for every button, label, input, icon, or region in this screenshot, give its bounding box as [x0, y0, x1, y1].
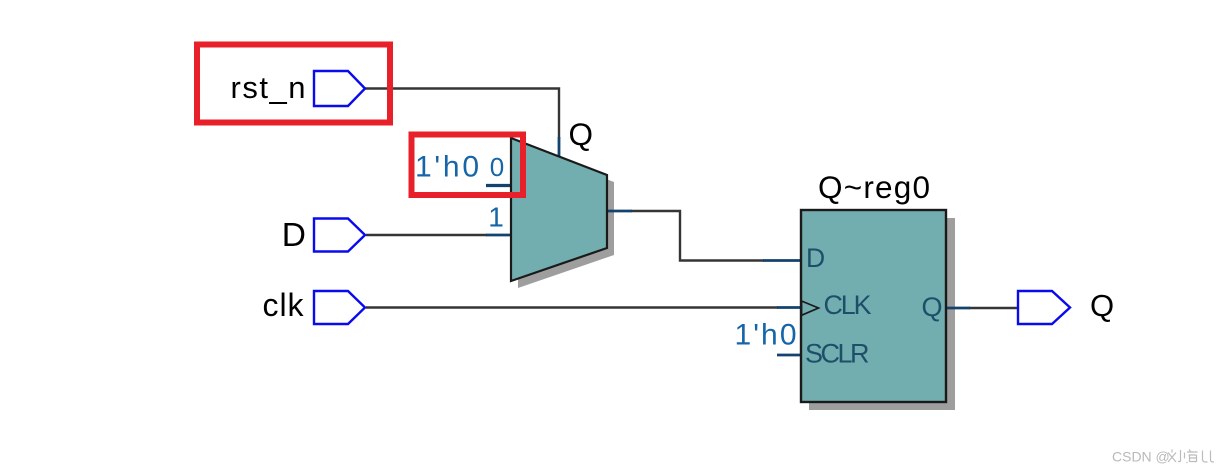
svg-text:CLK: CLK	[824, 290, 872, 320]
svg-text:1'h0: 1'h0	[735, 319, 797, 352]
svg-text:Q: Q	[569, 116, 594, 152]
svg-text:rst_n: rst_n	[231, 70, 306, 105]
svg-text:1: 1	[488, 202, 504, 233]
svg-text:0: 0	[490, 152, 504, 182]
svg-text:clk: clk	[263, 287, 305, 323]
svg-text:Q~reg0: Q~reg0	[818, 169, 930, 205]
svg-text:Q: Q	[1090, 288, 1114, 323]
svg-text:Q: Q	[922, 292, 943, 322]
svg-text:D: D	[806, 243, 825, 273]
svg-text:1'h0: 1'h0	[415, 151, 479, 184]
svg-text:CSDN @: CSDN @	[1112, 449, 1170, 465]
svg-text:SCLR: SCLR	[805, 339, 870, 369]
svg-text:D: D	[282, 217, 306, 254]
